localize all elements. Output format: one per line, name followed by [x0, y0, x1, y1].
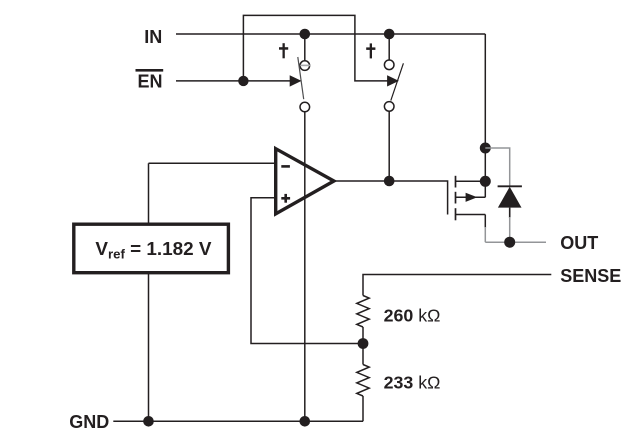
wire S1 top stub [304, 34, 306, 61]
wire GND rail [113, 420, 363, 422]
wire OUT lead [485, 241, 546, 243]
Q1 body arrow [466, 193, 478, 202]
wire Vref top lead [148, 163, 150, 224]
node op-amp output junction [384, 176, 395, 187]
svg-text:233 kΩ: 233 kΩ [384, 373, 441, 393]
wire IN rail [176, 33, 485, 35]
voltage reference Vref box [74, 224, 229, 273]
resistor R2 233 k [357, 365, 369, 397]
wire non-inverting input lead [251, 198, 363, 344]
wire S1 bottom to GND rail (passes through op-amp) [304, 112, 306, 422]
wire S2 top stub [388, 34, 390, 60]
switch S1 [290, 57, 311, 112]
wire EN lead [176, 80, 291, 82]
node switch S1 tap on IN [300, 29, 311, 40]
wire SENSE lead [363, 275, 551, 296]
op-amp plus sign [281, 194, 290, 203]
transistor Q1 pass MOSFET [456, 176, 486, 221]
wire body diode cathode branch [485, 148, 509, 186]
wire Vref bottom lead to GND [148, 273, 150, 422]
dagger mark for S1 [279, 43, 288, 58]
node switch S2 tap on IN [384, 29, 395, 40]
node OUT junction [504, 237, 515, 248]
svg-text:SENSE: SENSE [560, 266, 621, 286]
wire source down to OUT [484, 215, 486, 229]
switch S2 [384, 60, 403, 111]
svg-text:EN: EN [137, 72, 162, 92]
node drain-IN junction [480, 143, 491, 154]
wire S2 bottom to op-amp output node [388, 111, 390, 181]
node feedback divider junction [358, 338, 369, 349]
svg-text:GND: GND [69, 412, 109, 432]
wire inverting input lead [149, 162, 276, 164]
node GND-S1 junction [300, 416, 311, 427]
diode D1 (body diode) [498, 186, 522, 242]
wire IN rail drop to pass FET [484, 34, 486, 148]
op-amp U1 (error amplifier) [276, 149, 334, 214]
node EN junction [238, 76, 248, 86]
wire node to R2 [362, 344, 364, 365]
wire R1 to node [362, 327, 364, 344]
svg-text:IN: IN [144, 27, 162, 47]
resistor R1 260 k [357, 296, 369, 328]
wire EN loop to switch S2 [243, 15, 387, 81]
svg-text:OUT: OUT [560, 233, 598, 253]
node GND-Vref junction [143, 416, 154, 427]
wire R2 to GND rail [362, 396, 364, 421]
op-amp minus sign [281, 165, 290, 168]
node drain-body junction [480, 176, 491, 187]
dagger mark for S2 [366, 43, 375, 58]
wire op-amp output to gate [334, 181, 448, 215]
svg-text:260 kΩ: 260 kΩ [384, 305, 441, 325]
wire drain column [484, 148, 486, 197]
